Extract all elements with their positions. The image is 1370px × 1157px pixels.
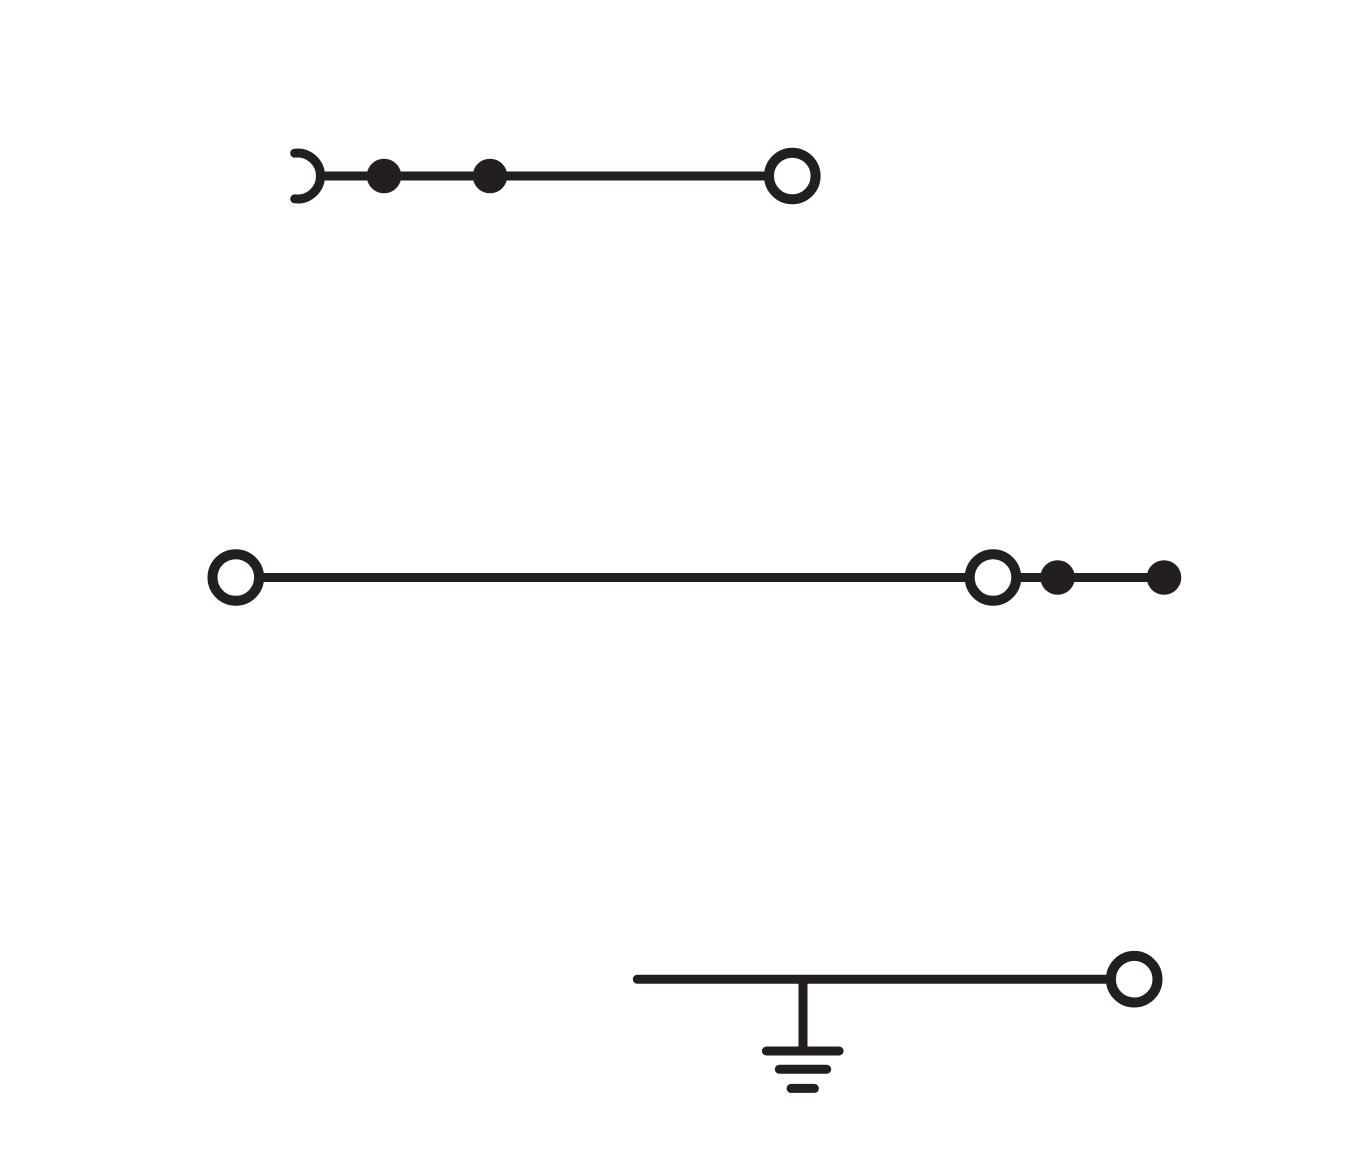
junction dot level 2 b <box>1147 560 1182 595</box>
wire level 1 <box>318 172 766 181</box>
ground bar 3 <box>791 1084 814 1093</box>
spring-clamp contact (open arc) level 1 <box>295 153 321 199</box>
ground bar 1 <box>766 1047 839 1056</box>
level 1 conductor rail <box>295 153 766 199</box>
level 2 conductor rail <box>262 573 1164 582</box>
wire level 3 <box>637 975 1107 984</box>
terminal ring level 2 right <box>970 554 1017 601</box>
junction dot level 2 a <box>1040 560 1075 595</box>
terminal ring level 3 <box>1111 956 1158 1003</box>
wire level 2 right <box>1019 573 1164 582</box>
junction dot level 1 b <box>473 159 508 194</box>
junction dot level 1 a <box>367 159 402 194</box>
level 3 ground rail <box>637 979 1107 1088</box>
wire level 2 left <box>262 573 967 582</box>
ground bar 2 <box>779 1065 826 1074</box>
wire ground drop <box>799 979 808 1051</box>
terminal ring level 1 <box>769 153 816 200</box>
terminal ring level 2 left <box>213 554 260 601</box>
